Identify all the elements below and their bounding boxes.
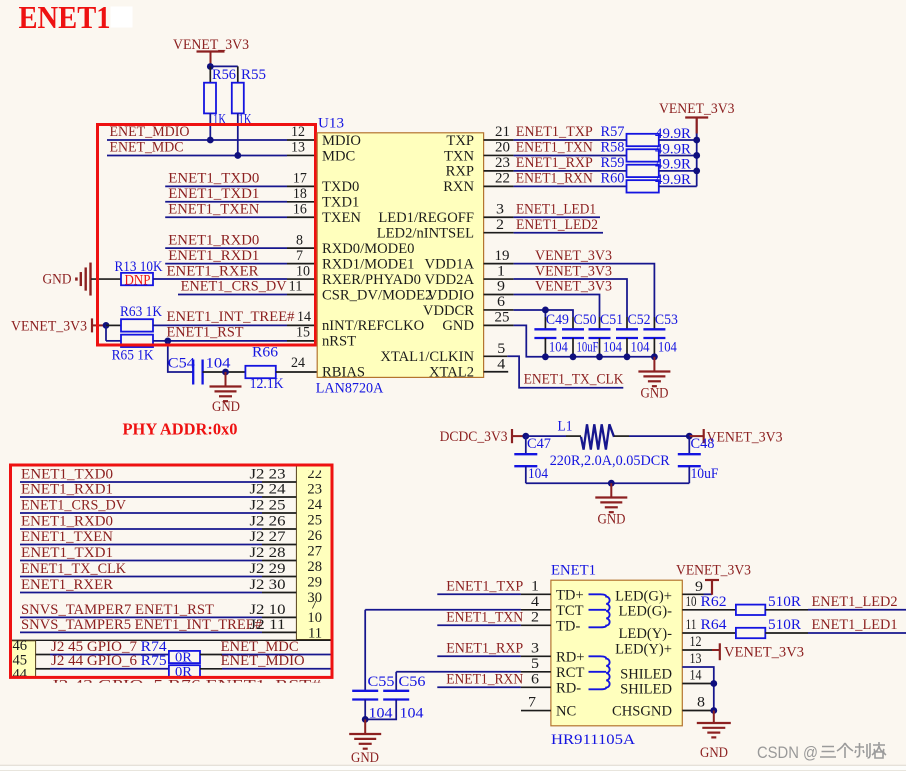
resistor R65 <box>112 335 154 364</box>
svg-text:VDDIO: VDDIO <box>427 287 474 303</box>
node junction RST / C54 branch <box>164 337 171 344</box>
svg-text:4: 4 <box>531 594 540 610</box>
svg-text:GND: GND <box>212 399 240 415</box>
wire HR pin 14 <box>682 668 714 684</box>
wire SNVS_TAMPER5 ENET1_INT_TREE# to J2 11 <box>20 617 296 633</box>
svg-text:ENET1: ENET1 <box>551 563 596 579</box>
svg-text:J2 26: J2 26 <box>250 514 286 530</box>
svg-text:R60: R60 <box>601 171 625 187</box>
svg-text:5: 5 <box>497 341 505 357</box>
svg-text:13: 13 <box>291 140 305 156</box>
svg-text:104: 104 <box>206 356 232 372</box>
connector J2 body (right strip with pins 22-30,10,11) <box>296 466 331 640</box>
svg-text:RXD1/MODE1: RXD1/MODE1 <box>322 256 414 272</box>
svg-text:ENET1_TXEN: ENET1_TXEN <box>168 201 259 217</box>
bottom page strip <box>0 765 906 771</box>
svg-text:CSDN @: CSDN @ <box>757 743 818 762</box>
svg-text:10uF: 10uF <box>691 466 719 482</box>
svg-text:XTAL1/CLKIN: XTAL1/CLKIN <box>380 349 474 365</box>
wire pin 25 (GND) down to cap bus <box>484 310 655 357</box>
svg-text:SHILED: SHILED <box>620 667 672 683</box>
svg-text:21: 21 <box>495 124 510 140</box>
node junctions on cap GND bus <box>542 353 658 360</box>
wire ENET1_TXD1 to J2 28 <box>20 545 296 561</box>
node junction VENET_3V3 branch <box>103 322 110 329</box>
node junction filter GND <box>608 480 615 487</box>
svg-text:MDIO: MDIO <box>322 133 361 149</box>
wire ENET1_TXP (pin 21) to resistor R57 <box>484 124 627 140</box>
svg-text:L1: L1 <box>558 419 573 435</box>
svg-text:0R: 0R <box>175 650 192 665</box>
wire ENET1_LED2 (pin 2) <box>484 217 603 233</box>
wire ENET1_TX_CLK to J2 29 <box>20 561 296 577</box>
svg-text:ENET1_RXER: ENET1_RXER <box>21 577 113 593</box>
svg-text:VDD1A: VDD1A <box>425 256 475 272</box>
resistor R59 49.9R <box>627 157 697 177</box>
wire ENET1_RXN (HR pin 6) <box>437 671 551 687</box>
svg-text:6: 6 <box>497 294 505 310</box>
svg-text:23: 23 <box>307 482 322 498</box>
svg-text:ENET1_LED1: ENET1_LED1 <box>812 617 898 633</box>
svg-text:C48: C48 <box>691 436 715 452</box>
svg-text:510R: 510R <box>768 617 801 633</box>
svg-text:1: 1 <box>497 263 505 279</box>
sheet title ENET1 <box>19 0 133 35</box>
svg-text:10: 10 <box>307 610 322 626</box>
svg-text:18: 18 <box>293 186 307 202</box>
wire RCT down to C56 <box>395 672 397 691</box>
svg-text:ENET1_TXP: ENET1_TXP <box>446 578 523 594</box>
svg-text:12: 12 <box>291 124 305 140</box>
ground GND (below C55/C56) <box>349 719 381 766</box>
resistor R63 <box>106 304 162 332</box>
wire HR pin 13 to GND bus <box>682 651 714 711</box>
transformer coil TD (inside HR911105A) <box>589 594 610 627</box>
svg-text:SNVS_TAMPER7 ENET1_RST: SNVS_TAMPER7 ENET1_RST <box>21 602 214 618</box>
wire ENET1_TXEN (pin 16) <box>165 201 317 217</box>
svg-text:C49: C49 <box>546 312 569 328</box>
svg-text:4: 4 <box>497 356 506 372</box>
resistor R62 510R <box>736 594 906 615</box>
svg-text:ENET1_RST: ENET1_RST <box>167 325 244 341</box>
svg-text:C47: C47 <box>527 436 551 452</box>
svg-text:J2 28: J2 28 <box>250 545 286 561</box>
ground GND (below C49-C53) <box>638 357 670 402</box>
partially cut row below red box <box>51 678 322 694</box>
node junction C55/C56 GND <box>362 716 369 723</box>
svg-text:HR911105A: HR911105A <box>551 732 636 748</box>
svg-text:RXD0/MODE0: RXD0/MODE0 <box>322 241 414 257</box>
svg-text:ENET1_INT_TREE#: ENET1_INT_TREE# <box>167 309 296 325</box>
wire J2 45 GPIO_7 through R74 to ENET_MDC <box>36 639 169 655</box>
svg-text:J2 30: J2 30 <box>250 577 286 593</box>
wire ENET_MDIO (pin 12) <box>107 124 317 140</box>
svg-text:RD+: RD+ <box>556 649 585 665</box>
svg-text:16: 16 <box>293 201 307 217</box>
svg-text:ENET1_TXN: ENET1_TXN <box>446 609 523 625</box>
svg-text:11: 11 <box>289 279 303 295</box>
svg-text:TXN: TXN <box>444 148 474 164</box>
svg-text:ENET1_CRS_DV: ENET1_CRS_DV <box>181 279 287 295</box>
wire ENET1_RXN (pin 22) to resistor R60 <box>484 171 627 187</box>
capacitor C53 <box>643 312 678 357</box>
svg-text:25: 25 <box>495 310 510 326</box>
svg-text:3: 3 <box>496 201 504 217</box>
connector J2 pin numbers right strip <box>307 466 322 642</box>
svg-text:TXP: TXP <box>446 133 474 149</box>
svg-text:5: 5 <box>531 656 539 672</box>
resistor R57 49.9R <box>627 126 697 146</box>
node junction R56 on MDIO wire <box>207 137 214 144</box>
resistor R58 49.9R <box>627 141 697 161</box>
svg-text:3: 3 <box>531 640 539 656</box>
svg-text:104: 104 <box>658 340 678 356</box>
svg-text:7: 7 <box>528 695 536 711</box>
wire NC stub (HR pin 7) <box>521 695 551 711</box>
inductor L1 (zigzag) <box>526 419 690 470</box>
node junction HR pin 14 <box>710 680 717 687</box>
ground GND (left, bar style) <box>43 263 91 296</box>
svg-text:J2 27: J2 27 <box>250 529 286 545</box>
svg-text:R59: R59 <box>601 155 625 171</box>
svg-text:ENET1_CRS_DV: ENET1_CRS_DV <box>21 498 126 514</box>
svg-text:ENET1_TX_CLK: ENET1_TX_CLK <box>21 561 126 577</box>
capacitor C49 <box>534 312 569 357</box>
svg-text:9: 9 <box>497 279 505 295</box>
wire VENET_3V3 pin 9 (VDDIO) to C51 <box>484 279 612 317</box>
svg-text:C54: C54 <box>168 356 196 372</box>
svg-text:R66: R66 <box>252 345 278 361</box>
capacitor C54 <box>168 356 232 385</box>
svg-text:ENET_MDC: ENET_MDC <box>110 140 184 156</box>
svg-text:VENET_3V3: VENET_3V3 <box>535 263 612 279</box>
power label VENET_3V3 (HR pin 9) <box>676 563 751 579</box>
svg-text:104: 104 <box>528 466 549 482</box>
svg-text:C55: C55 <box>368 674 395 690</box>
wire TCT down to C55 <box>364 610 366 691</box>
watermark CSDN <box>757 742 886 762</box>
svg-text:J2 10: J2 10 <box>250 602 286 618</box>
wire pin 6 (VDDCR) to C49/C50 <box>484 294 573 317</box>
svg-text:C50: C50 <box>574 312 597 328</box>
wire VENET_3V3 pin 1 (VDD2A) to C52 <box>484 263 627 317</box>
svg-text:220R,2.0A,0.05DCR: 220R,2.0A,0.05DCR <box>550 453 670 469</box>
svg-text:RXN: RXN <box>443 179 474 195</box>
svg-text:104: 104 <box>603 340 623 356</box>
wire from VENET_3V3 junction to R55 branch <box>210 65 238 67</box>
svg-text:J2 23: J2 23 <box>250 467 286 483</box>
capacitor C48 <box>678 436 719 483</box>
power label VENET_3V3 (HR pin 12) <box>724 645 804 661</box>
svg-text:VENET_3V3: VENET_3V3 <box>535 279 612 295</box>
svg-text:J2 44 GPIO_6: J2 44 GPIO_6 <box>51 653 137 669</box>
svg-text:26: 26 <box>307 528 322 544</box>
svg-text:LED2/nINTSEL: LED2/nINTSEL <box>377 226 474 242</box>
svg-text:ENET1_LED2: ENET1_LED2 <box>812 594 898 610</box>
svg-text:LAN8720A: LAN8720A <box>316 381 384 397</box>
svg-text:TD+: TD+ <box>556 587 584 603</box>
wire pin 5 XTAL1/CLKIN to ENET1_TX_CLK <box>484 341 624 388</box>
svg-text:ENET1_RXD1: ENET1_RXD1 <box>168 248 259 264</box>
svg-text:VENET_3V3: VENET_3V3 <box>676 563 751 579</box>
svg-text:ENET1_RXD0: ENET1_RXD0 <box>168 232 259 248</box>
svg-text:27: 27 <box>307 544 322 560</box>
wire HR pin 8 CHSGND <box>682 695 714 711</box>
svg-text:TXEN: TXEN <box>322 210 361 226</box>
svg-text:14: 14 <box>690 668 703 684</box>
node junction DCDC_3V3 / C47 <box>522 433 529 440</box>
resistor R13 (DNP) <box>115 259 163 288</box>
connector U? HR911105A body <box>551 563 682 749</box>
svg-text:R58: R58 <box>601 140 625 156</box>
wire ENET1_RXD1 (pin 7) <box>165 248 317 264</box>
svg-text:GND: GND <box>700 745 728 761</box>
resistor R64 510R <box>736 617 906 638</box>
node junction L1 / C48 / VENET_3V3 <box>686 433 693 440</box>
svg-text:R63 1K: R63 1K <box>120 304 162 320</box>
svg-text:TXD1: TXD1 <box>322 195 359 211</box>
node junction at VENET_3V3 / R56 top <box>207 63 214 70</box>
svg-text:TD-: TD- <box>556 618 580 634</box>
svg-text:CSR_DV/MODE2: CSR_DV/MODE2 <box>322 287 432 303</box>
svg-text:104: 104 <box>549 340 569 356</box>
svg-text:7: 7 <box>296 248 303 264</box>
svg-text:ENET1_RXP: ENET1_RXP <box>516 155 593 171</box>
svg-text:VDDCR: VDDCR <box>423 303 474 319</box>
wire ENET1_RXP (HR pin 3) <box>437 640 551 656</box>
wire HR pin 10 to resistor R62 <box>682 594 736 610</box>
svg-text:104: 104 <box>400 706 425 722</box>
ground GND (filter) <box>595 483 627 527</box>
wire GND to R13 <box>91 278 121 280</box>
svg-text:29: 29 <box>307 575 322 591</box>
svg-text:11: 11 <box>686 617 697 633</box>
svg-text:28: 28 <box>307 559 322 575</box>
svg-text:R65 1K: R65 1K <box>112 348 154 364</box>
svg-text:22: 22 <box>495 171 510 187</box>
wire filter ground bus <box>526 482 690 484</box>
svg-text:ENET1_RXD0: ENET1_RXD0 <box>21 514 113 530</box>
svg-text:ENET1_TXP: ENET1_TXP <box>516 124 593 140</box>
svg-text:14: 14 <box>297 309 312 325</box>
svg-text:GND: GND <box>43 272 72 288</box>
svg-text:ENET1_TXN: ENET1_TXN <box>516 140 593 156</box>
wire VENET_3V3 down to R65 <box>106 325 121 340</box>
annotation text PHY ADDR:0x0 <box>123 420 238 439</box>
svg-text:LED(Y)-: LED(Y)- <box>619 626 673 642</box>
svg-text:LED(G)+: LED(G)+ <box>615 589 672 605</box>
wire ENET1_RXD0 to J2 26 <box>20 514 296 530</box>
svg-text:GND: GND <box>351 750 379 766</box>
svg-text:ENET1_RXN: ENET1_RXN <box>516 171 593 187</box>
node junction C54/GND/R66 <box>222 369 229 376</box>
svg-text:VENET_3V3: VENET_3V3 <box>707 430 783 446</box>
svg-text:VENET_3V3: VENET_3V3 <box>535 248 612 264</box>
capacitor C56 <box>365 674 425 722</box>
svg-text:LED1/REGOFF: LED1/REGOFF <box>378 210 474 226</box>
node junction R55 on MDC wire <box>234 152 241 159</box>
svg-text:ENET1_TXEN: ENET1_TXEN <box>21 529 113 545</box>
svg-text:ENET1_TXD1: ENET1_TXD1 <box>21 545 113 561</box>
svg-text:2: 2 <box>531 609 539 625</box>
wire ENET1_TXD0 to J2 23 <box>20 467 296 483</box>
svg-text:19: 19 <box>495 248 510 264</box>
svg-text:TXD0: TXD0 <box>322 179 359 195</box>
wire center tap (HR pin 5) <box>396 656 551 672</box>
wire RST junction down to C54 <box>168 341 193 372</box>
svg-text:25: 25 <box>307 513 322 529</box>
wire ENET1_RXER (pin 10) <box>153 263 317 279</box>
svg-text:nINT/REFCLKO: nINT/REFCLKO <box>322 318 424 334</box>
svg-text:C56: C56 <box>399 674 426 690</box>
wire ENET1_TXD1 (pin 18) <box>165 186 317 202</box>
svg-text:XTAL2: XTAL2 <box>429 365 474 381</box>
wire VENET_3V3 pin 19 (VDD1A) to C53 <box>484 248 655 317</box>
svg-text:GND: GND <box>641 386 669 402</box>
svg-text:ENET1_TXD0: ENET1_TXD0 <box>21 467 113 483</box>
svg-text:nRST: nRST <box>322 334 356 350</box>
resistor R60 49.9R <box>627 172 697 192</box>
svg-text:11: 11 <box>308 626 322 642</box>
annotation red box around J2 pin table <box>11 465 333 677</box>
svg-text:1: 1 <box>531 578 539 594</box>
wire ENET1_LED1 (pin 3) <box>484 201 600 217</box>
power port VENET_3V3 (after L1) <box>689 429 782 446</box>
svg-text:10: 10 <box>686 594 697 610</box>
capacitor C55 <box>352 674 394 722</box>
wire ENET1_INT_TREE# (pin 14) <box>153 309 317 325</box>
wire vertical bus to VENET_3V3 (right of R57-R60) <box>696 119 698 187</box>
node junction C49 top on pin6 wire <box>542 307 549 314</box>
svg-text:J2 11: J2 11 <box>250 617 286 633</box>
resistor R75 0R <box>169 653 332 679</box>
svg-text:CHSGND: CHSGND <box>612 704 672 720</box>
wire ENET_MDC (pin 13) <box>107 140 317 156</box>
wire ENET1_RST (pin 15) <box>153 325 317 341</box>
svg-text:24: 24 <box>307 497 322 513</box>
svg-text:C52: C52 <box>628 312 651 328</box>
svg-text:6: 6 <box>531 671 539 687</box>
svg-text:10uF: 10uF <box>577 340 599 356</box>
svg-text:ENET1_TXD0: ENET1_TXD0 <box>168 171 259 187</box>
wire SNVS_TAMPER7 ENET1_RST to J2 10 <box>20 602 296 618</box>
svg-text:NC: NC <box>556 704 576 720</box>
capacitor C50 <box>562 312 599 357</box>
annotation red box around PHY left pins <box>98 125 316 346</box>
svg-text:23: 23 <box>495 155 510 171</box>
svg-text:J2 24: J2 24 <box>250 482 287 498</box>
svg-text:DCDC_3V3: DCDC_3V3 <box>440 429 508 445</box>
wire ENET1_RXP (pin 23) to resistor R59 <box>484 155 627 171</box>
svg-text:ENET1: ENET1 <box>19 0 111 35</box>
wire C54 to R66 <box>203 371 246 373</box>
node junction HR pin 8 <box>710 707 717 714</box>
svg-text:17: 17 <box>293 171 307 187</box>
wire ENET1_TXN (pin 20) to resistor R58 <box>484 140 627 156</box>
resistor R55 <box>232 66 266 155</box>
svg-text:C51: C51 <box>600 312 623 328</box>
svg-text:RXER/PHYAD0: RXER/PHYAD0 <box>322 272 421 288</box>
wire pin 4 XTAL2 stub <box>484 356 509 372</box>
svg-text:104: 104 <box>631 340 651 356</box>
svg-text:C53: C53 <box>655 312 678 328</box>
svg-text:20: 20 <box>495 140 510 156</box>
svg-text:ENET1_RXP: ENET1_RXP <box>446 640 523 656</box>
power port VENET_3V3 (top right) <box>659 101 735 140</box>
svg-text:TCT: TCT <box>556 603 584 619</box>
svg-text:ENET1_RXD1: ENET1_RXD1 <box>21 482 113 498</box>
capacitor C51 <box>589 312 624 357</box>
capacitor C52 <box>616 312 651 357</box>
svg-text:ENET1_TXD1: ENET1_TXD1 <box>168 186 259 202</box>
table divider line <box>11 639 332 641</box>
svg-text:R56: R56 <box>212 67 236 83</box>
wire J2 44 GPIO_6 through R75 to ENET_MDIO <box>36 653 169 669</box>
svg-text:VENET_3V3: VENET_3V3 <box>724 645 804 661</box>
svg-text:ENET1_LED2: ENET1_LED2 <box>516 217 598 233</box>
svg-text:24: 24 <box>291 355 306 371</box>
svg-text:SNVS_TAMPER5 ENET1_INT_TREE#: SNVS_TAMPER5 ENET1_INT_TREE# <box>21 617 263 633</box>
svg-text:12: 12 <box>690 634 702 650</box>
wire ENET1_RXD1 to J2 24 <box>20 482 296 498</box>
svg-text:SHILED: SHILED <box>620 682 672 698</box>
connector J2 body (left strip pins 46,45,44) <box>11 638 36 683</box>
svg-text:510R: 510R <box>768 594 801 610</box>
svg-text:U13: U13 <box>318 116 344 132</box>
svg-text:LED(G)-: LED(G)- <box>619 604 673 620</box>
wire ENET1_RXD0 (pin 8) <box>165 232 317 248</box>
svg-text:ENET1_RXER: ENET1_RXER <box>167 263 259 279</box>
wire HR pin 11 to resistor R64 <box>682 617 736 633</box>
svg-text:2: 2 <box>496 217 504 233</box>
capacitor C47 <box>514 436 551 483</box>
power port VENET_3V3 (top, above R56/R55) <box>173 37 249 67</box>
svg-text:R64: R64 <box>701 617 728 633</box>
wire ENET1_CRS_DV to J2 25 <box>20 498 296 514</box>
svg-text:12.1K: 12.1K <box>250 376 284 392</box>
svg-text:MDC: MDC <box>322 148 355 164</box>
svg-text:15: 15 <box>296 325 310 341</box>
resistor R74 0R <box>169 639 332 665</box>
svg-text:VENET_3V3: VENET_3V3 <box>659 101 735 117</box>
svg-text:GND: GND <box>442 318 474 334</box>
svg-text:RCT: RCT <box>556 665 584 681</box>
transformer coil RD (inside HR911105A) <box>589 656 610 689</box>
svg-text:ENET_MDIO: ENET_MDIO <box>110 124 190 140</box>
svg-text:RD-: RD- <box>556 680 581 696</box>
svg-text:R75: R75 <box>141 653 167 669</box>
wire ENET1_TXD0 (pin 17) <box>165 171 317 187</box>
svg-text:J2 25: J2 25 <box>250 498 286 514</box>
svg-text:R62: R62 <box>701 594 727 610</box>
wire ENET1_TXEN to J2 27 <box>20 529 296 545</box>
wire HR pin 9 to VENET_3V3 <box>682 579 719 595</box>
svg-text:ENET1_RXN: ENET1_RXN <box>446 671 523 687</box>
resistor R66 <box>245 345 284 393</box>
svg-text:ENET_MDIO: ENET_MDIO <box>221 653 305 669</box>
svg-text:LED(Y)+: LED(Y)+ <box>615 642 672 658</box>
ground GND (below C54) <box>210 372 242 415</box>
wire center tap (HR pin 4) <box>365 594 551 610</box>
svg-text:R55: R55 <box>241 67 266 83</box>
svg-text:ENET1_LED1: ENET1_LED1 <box>516 201 596 217</box>
wire R66 to RBIAS (pin 24) <box>276 355 317 372</box>
wire ENET1_CRS_DV (pin 11) <box>178 279 317 295</box>
wire ENET1_TXP (HR pin 1) <box>437 578 551 594</box>
svg-text:10: 10 <box>296 263 310 279</box>
wire ENET1_TXN (HR pin 2) <box>437 609 551 625</box>
wire ENET1_RXER to J2 30 <box>20 577 296 593</box>
